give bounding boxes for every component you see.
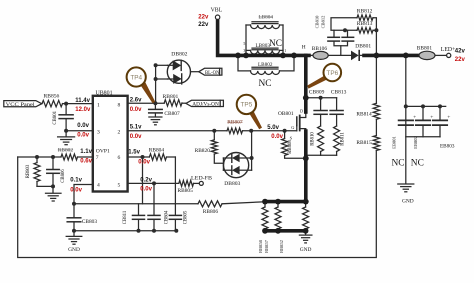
svg-text:0.0v: 0.0v (138, 159, 150, 165)
svg-text:GND: GND (68, 247, 80, 253)
svg-text:TP4: TP4 (130, 74, 142, 81)
svg-text:ADJ/Vs-ON: ADJ/Vs-ON (192, 103, 219, 108)
svg-text:BB106: BB106 (312, 46, 328, 52)
svg-text:CB803: CB803 (82, 219, 98, 225)
svg-text:LED+: LED+ (441, 47, 456, 53)
svg-text:CB812: CB812 (320, 16, 325, 29)
svg-text:6: 6 (118, 155, 121, 161)
svg-text:CB811: CB811 (123, 210, 128, 224)
svg-text:CB805: CB805 (184, 210, 189, 224)
svg-text:BL-ON: BL-ON (205, 70, 220, 76)
svg-text:7: 7 (96, 155, 99, 161)
svg-text:RB852: RB852 (279, 240, 284, 253)
svg-text:RB805: RB805 (178, 188, 194, 194)
svg-text:CB804: CB804 (165, 210, 170, 224)
svg-text:RB803: RB803 (26, 164, 31, 178)
svg-text:UB801: UB801 (96, 90, 113, 96)
svg-text:CB801: CB801 (53, 110, 58, 124)
svg-text:RB858: RB858 (258, 239, 263, 253)
svg-text:3: 3 (243, 49, 245, 53)
svg-text:2.6v: 2.6v (130, 97, 142, 103)
svg-text:1: 1 (284, 49, 286, 53)
svg-text:RB811: RB811 (341, 132, 346, 146)
svg-text:DB803: DB803 (224, 181, 240, 187)
svg-text:RB812: RB812 (357, 8, 373, 14)
svg-text:NC: NC (411, 158, 424, 168)
svg-text:RB810: RB810 (311, 132, 316, 146)
svg-text:BB801: BB801 (417, 46, 433, 52)
svg-text:5: 5 (118, 183, 121, 189)
svg-text:RB807: RB807 (227, 120, 243, 126)
svg-text:OB801: OB801 (278, 111, 294, 117)
svg-text:VBL: VBL (211, 8, 223, 14)
svg-text:22v: 22v (455, 57, 466, 63)
svg-text:CB807: CB807 (164, 111, 180, 117)
svg-text:0.0v: 0.0v (140, 187, 152, 193)
svg-text:GND: GND (402, 198, 414, 204)
svg-text:0.0v: 0.0v (130, 107, 142, 113)
svg-text:LB804: LB804 (259, 14, 274, 20)
svg-text:TP5: TP5 (241, 102, 253, 109)
svg-text:22v: 22v (198, 14, 209, 20)
svg-text:LB802: LB802 (258, 62, 273, 68)
svg-text:1.5v: 1.5v (128, 149, 140, 155)
svg-text:RB804: RB804 (149, 147, 165, 153)
svg-text:RB813: RB813 (357, 21, 373, 27)
svg-text:VCC Panel: VCC Panel (6, 103, 36, 108)
svg-text:RB857: RB857 (264, 239, 269, 253)
svg-text:+: + (447, 115, 450, 121)
svg-text:5.0v: 5.0v (267, 125, 279, 131)
svg-text:22v: 22v (198, 22, 209, 28)
svg-text:RB808: RB808 (288, 140, 293, 154)
svg-text:NC: NC (392, 158, 405, 168)
svg-text:OVP1: OVP1 (96, 149, 110, 155)
svg-text:CB810: CB810 (314, 15, 319, 29)
svg-text:1: 1 (97, 103, 100, 109)
svg-text:0.2v: 0.2v (140, 177, 152, 183)
svg-text:0.0v: 0.0v (77, 132, 89, 138)
svg-text:LED-FB: LED-FB (191, 175, 212, 181)
svg-text:RB814: RB814 (356, 112, 372, 118)
svg-text:RB802: RB802 (58, 147, 74, 153)
svg-text:0.0v: 0.0v (70, 187, 82, 193)
svg-text:CB813: CB813 (331, 90, 347, 96)
svg-text:+: + (413, 115, 416, 121)
svg-text:NC: NC (269, 39, 282, 49)
svg-text:11.4v: 11.4v (75, 98, 90, 104)
svg-text:0.0v: 0.0v (130, 134, 142, 140)
svg-text:8: 8 (118, 103, 121, 109)
svg-text:TP6: TP6 (326, 70, 338, 77)
svg-text:GND: GND (300, 247, 312, 253)
svg-text:3: 3 (97, 130, 100, 136)
svg-text:RB856: RB856 (44, 93, 60, 99)
svg-text:RB820: RB820 (195, 148, 211, 154)
svg-text:2: 2 (118, 130, 121, 136)
svg-text:0.0v: 0.0v (77, 123, 89, 129)
svg-text:12.0v: 12.0v (75, 107, 91, 113)
svg-text:DB801: DB801 (355, 43, 371, 49)
svg-text:H: H (302, 45, 306, 51)
svg-text:5.1v: 5.1v (130, 124, 142, 130)
svg-text:DB802: DB802 (171, 52, 187, 58)
svg-text:RB801: RB801 (163, 94, 179, 100)
svg-text:D: D (300, 108, 303, 113)
svg-text:CB809: CB809 (309, 90, 325, 96)
svg-text:42v: 42v (455, 48, 466, 54)
svg-text:+: + (430, 115, 433, 121)
svg-text:CB806: CB806 (61, 169, 66, 183)
svg-text:RB815: RB815 (356, 140, 372, 146)
svg-text:5: 5 (243, 42, 245, 46)
svg-text:0.1v: 0.1v (70, 177, 82, 183)
svg-text:0.6v: 0.6v (80, 159, 92, 165)
svg-text:0.0v: 0.0v (271, 134, 283, 140)
svg-text:EB802: EB802 (413, 136, 418, 149)
svg-text:NC: NC (259, 79, 272, 89)
svg-text:1.1v: 1.1v (80, 149, 92, 155)
svg-text:4: 4 (97, 183, 100, 189)
svg-text:RB806: RB806 (203, 209, 219, 215)
svg-text:EB801: EB801 (391, 136, 396, 149)
svg-text:EB803: EB803 (440, 144, 455, 150)
